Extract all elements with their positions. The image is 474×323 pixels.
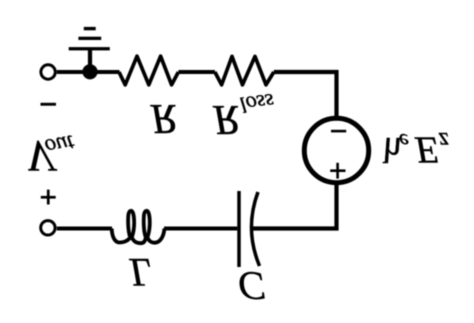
svg-text:L: L xyxy=(129,250,152,295)
svg-text:R: R xyxy=(212,96,239,142)
wire top rail from T1 to resistor R xyxy=(57,70,120,74)
svg-text:E: E xyxy=(414,128,438,170)
wire between R and Rloss xyxy=(178,70,215,74)
svg-text:R: R xyxy=(150,95,177,141)
terminal T1 (upper-left, flipped negative output terminal) xyxy=(41,65,55,79)
label minus (output polarity) xyxy=(41,103,57,106)
terminal T2 (lower-left, flipped positive output terminal) xyxy=(41,221,55,235)
svg-text:loss: loss xyxy=(238,89,275,118)
wire from source bottom to lower-right corner and left to capacitor xyxy=(253,185,337,229)
label minus inside source xyxy=(331,130,346,133)
source U1 (circle, voltage source he·Ez) xyxy=(304,118,368,182)
inductor L (two-loop coil) xyxy=(112,211,165,243)
label plus inside source xyxy=(330,163,345,179)
label Rloss xyxy=(212,89,275,142)
wire from terminal T2 to inductor xyxy=(57,227,112,231)
svg-text:out: out xyxy=(43,130,76,160)
svg-text:z: z xyxy=(438,127,449,154)
ground (flipped, bars above wire) xyxy=(69,27,110,71)
label Vout (flipped italic) xyxy=(26,130,77,180)
wire bottom rail from capacitor to inductor xyxy=(164,227,225,231)
resistor Rloss (zigzag) xyxy=(215,56,274,84)
svg-text:C: C xyxy=(238,264,266,309)
svg-text:e: e xyxy=(399,129,409,154)
label plus (output polarity) xyxy=(41,190,56,205)
node junction dot at ground tap xyxy=(82,64,97,79)
resistor R (zigzag) xyxy=(119,56,178,85)
capacitor C (straight + curved plate) xyxy=(224,191,260,267)
wire from Rloss to top-right corner, down to source xyxy=(274,72,337,116)
label heEz (source value, flipped italic) xyxy=(377,127,449,171)
